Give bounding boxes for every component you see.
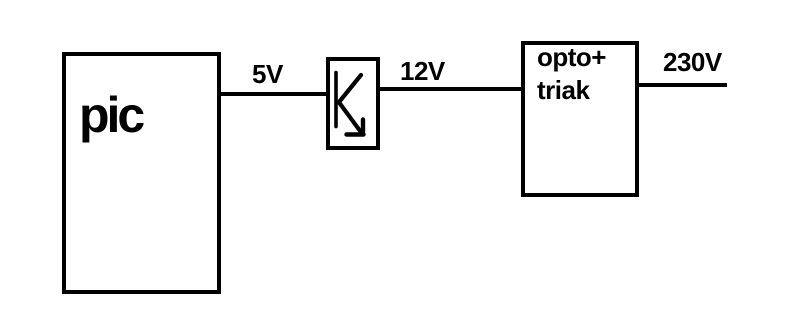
- transistor Q1 (switching block): [326, 57, 380, 150]
- block opto+triak U1: [521, 41, 639, 197]
- wire 230V net (opto output): [639, 83, 727, 87]
- label 12V: [400, 58, 445, 84]
- wire 12V net (transistor to opto): [380, 87, 522, 91]
- label opto+: [537, 44, 606, 70]
- block PIC (microcontroller): [62, 52, 221, 294]
- label pic: [79, 90, 142, 140]
- label 5V: [252, 61, 283, 87]
- label 230V: [663, 49, 722, 75]
- label triak: [537, 77, 589, 103]
- wire 5V net (PIC to transistor): [221, 92, 328, 96]
